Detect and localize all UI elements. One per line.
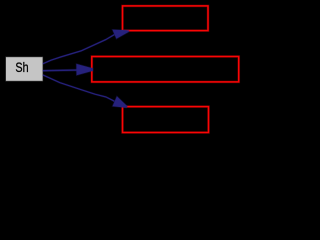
- edge Sh to top box: arrowhead halo: [112, 30, 128, 39]
- edge Sh to bottom box: wire: [43, 75, 115, 101]
- svg-text:Sh: Sh: [15, 60, 28, 75]
- edge Sh to top box: wire halo: [43, 35, 115, 64]
- node box bottom (red) halo: [123, 107, 209, 133]
- edge Sh to top box: arrowhead: [112, 30, 128, 39]
- node box middle (red): [92, 57, 239, 82]
- edge Sh to middle box: wire halo: [43, 69, 77, 72]
- graph canvas: [0, 0, 244, 139]
- node box top (red) halo: [123, 6, 209, 31]
- edge Sh to bottom box: arrowhead halo: [113, 96, 128, 107]
- node box bottom (red): [123, 107, 209, 133]
- node box top (red): [123, 6, 209, 31]
- edge Sh to middle box: arrowhead: [76, 64, 93, 75]
- edge Sh to bottom box: wire halo: [43, 75, 115, 101]
- node Sh (grey): [6, 57, 43, 81]
- edge Sh to bottom box: arrowhead: [113, 96, 128, 107]
- node Sh label: [15, 60, 28, 75]
- node box middle (red) halo: [92, 57, 239, 82]
- edge Sh to middle box: wire: [43, 69, 77, 72]
- edge Sh to top box: wire: [43, 35, 115, 64]
- edge Sh to middle box: arrowhead halo: [76, 64, 93, 75]
- node Sh (grey) halo: [5, 57, 43, 82]
